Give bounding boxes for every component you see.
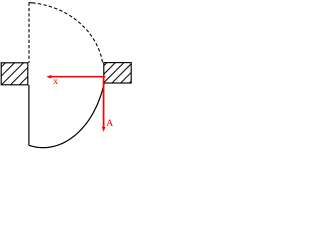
solid semicircular arc (lower quarter of circular plate) bbox=[29, 83, 104, 147]
dashed semicircular arc (hidden edge, upper quarter) bbox=[29, 2, 36, 5]
solid diameter line (lower half of plate edge) bbox=[28, 85, 30, 145]
left wall support block (hatched) bbox=[0, 61, 53, 87]
dashed diameter line (hidden edge, upper half) bbox=[28, 3, 30, 63]
red dimension arrow x-bar (points left) bbox=[46, 75, 105, 79]
red force arrow A (points down) bbox=[102, 77, 106, 132]
svg-text:A: A bbox=[106, 118, 113, 129]
dashed semicircular arc continues bbox=[38, 4, 103, 63]
right wall support block (hatched) bbox=[85, 61, 152, 85]
svg-text:x: x bbox=[53, 76, 58, 87]
